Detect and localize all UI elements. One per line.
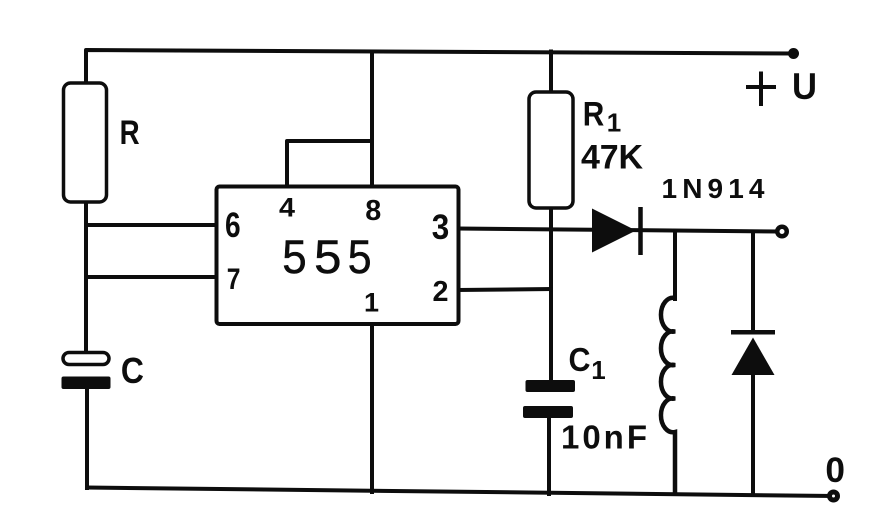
svg-text:5: 5: [348, 230, 372, 283]
svg-text:6: 6: [225, 206, 241, 245]
svg-text:R: R: [583, 96, 605, 134]
svg-text:4: 4: [279, 193, 295, 223]
svg-text:R: R: [120, 114, 140, 152]
svg-text:U: U: [792, 66, 817, 107]
svg-text:1: 1: [591, 355, 605, 385]
svg-text:10nF: 10nF: [561, 419, 647, 456]
svg-text:C: C: [121, 350, 144, 391]
svg-text:0: 0: [825, 451, 845, 490]
svg-text:1: 1: [364, 288, 379, 318]
svg-text:1N914: 1N914: [662, 173, 765, 204]
svg-text:7: 7: [227, 263, 241, 296]
svg-text:5: 5: [314, 230, 341, 283]
svg-text:2: 2: [433, 276, 449, 308]
svg-text:3: 3: [432, 208, 450, 247]
svg-text:8: 8: [365, 195, 381, 227]
svg-text:1: 1: [607, 108, 621, 138]
svg-text:47K: 47K: [581, 139, 643, 177]
svg-text:C: C: [569, 341, 591, 378]
svg-text:5: 5: [282, 230, 306, 283]
